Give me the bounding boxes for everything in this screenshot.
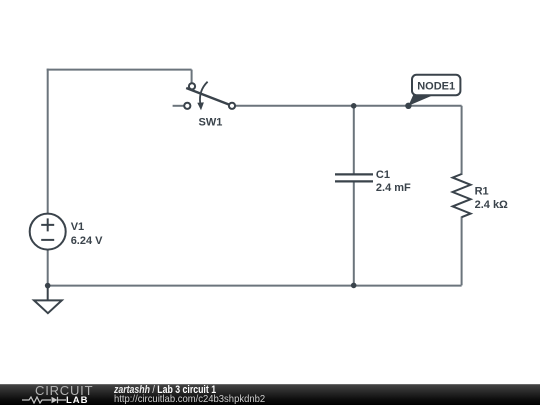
svg-text:2.4 kΩ: 2.4 kΩ — [475, 199, 508, 211]
svg-text:NODE1: NODE1 — [417, 80, 455, 92]
svg-text:C1: C1 — [376, 169, 390, 181]
svg-text:SW1: SW1 — [199, 117, 223, 129]
svg-text:R1: R1 — [475, 185, 489, 197]
svg-text:V1: V1 — [71, 221, 84, 233]
svg-text:2.4 mF: 2.4 mF — [376, 182, 411, 194]
svg-text:6.24 V: 6.24 V — [71, 235, 103, 247]
